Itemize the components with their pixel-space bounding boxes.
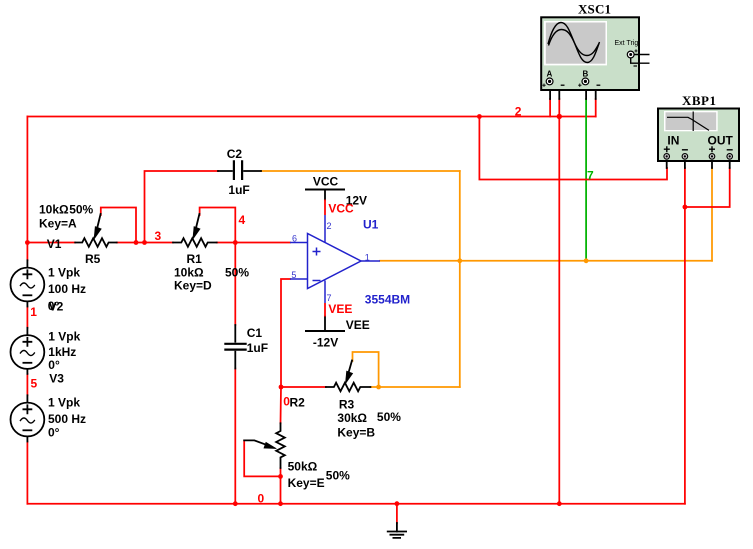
svg-text:1uF: 1uF [247, 341, 268, 355]
INSTRUMENT XBP1 [658, 93, 739, 161]
svg-text:6: 6 [292, 234, 297, 244]
ground [396, 523, 398, 532]
resistor R3 [326, 383, 371, 392]
XBP1 plus minus marks [664, 146, 670, 152]
svg-text:0°: 0° [48, 358, 60, 372]
svg-text:Key=A: Key=A [39, 217, 77, 231]
op-amp U1 [290, 215, 380, 303]
svg-text:5: 5 [291, 270, 296, 280]
wire opamp pin5 net [281, 279, 326, 387]
svg-text:30kΩ: 30kΩ [337, 411, 367, 425]
oscilloscope trace A [548, 23, 600, 63]
svg-text:VCC: VCC [328, 202, 354, 216]
scope A minus stub black [553, 82, 559, 99]
oscilloscope XSC1 body [541, 17, 639, 90]
scope B plus stub black [585, 85, 587, 99]
capacitor C2 [218, 170, 261, 172]
svg-text:3: 3 [155, 229, 162, 243]
svg-text:4: 4 [239, 213, 246, 227]
wire XBP1 INminus to rail [684, 168, 686, 504]
resistor R1 wiper arrow [196, 214, 199, 228]
svg-text:U1: U1 [363, 218, 379, 232]
svg-text:1uF: 1uF [228, 183, 249, 197]
node XBP1 INminus junction [683, 205, 688, 210]
svg-text:OUT: OUT [708, 134, 734, 148]
svg-text:R3: R3 [339, 398, 355, 412]
svg-text:1 Vpk: 1 Vpk [48, 266, 80, 280]
wire C1 bottom to rail [234, 369, 236, 504]
wire green scope B to orange net [585, 99, 587, 261]
svg-text:50%: 50% [326, 468, 350, 482]
bode plotter cursor [692, 112, 694, 132]
svg-text:1: 1 [30, 305, 37, 319]
wire R2 wiper loop [244, 440, 280, 476]
red pin wire VCC [324, 200, 326, 216]
XBP1 terminal stubs black [667, 159, 730, 168]
terminal A [546, 78, 553, 85]
svg-text:-12V: -12V [313, 335, 338, 349]
VEE power symbol [306, 330, 344, 332]
svg-text:Key=D: Key=D [174, 279, 212, 293]
resistor R2 wiper arrow [244, 440, 266, 445]
svg-text:500 Hz: 500 Hz [48, 412, 86, 426]
wire opamp output orange [380, 260, 712, 262]
svg-text:50%: 50% [225, 266, 249, 280]
source V3 [26, 395, 28, 402]
red pin wire VEE [324, 303, 326, 317]
svg-text:50%: 50% [377, 410, 401, 424]
XBP1 terminals [664, 154, 670, 160]
svg-text:1 Vpk: 1 Vpk [48, 329, 80, 343]
wire XBP1 OUTminus [685, 168, 730, 207]
svg-text:0: 0 [258, 492, 265, 506]
node orange green junction [584, 258, 589, 263]
wire scope B minus down [595, 99, 597, 117]
ext trig terminal [627, 51, 634, 58]
svg-text:100 Hz: 100 Hz [48, 282, 86, 296]
node R2 top junction [279, 385, 284, 390]
wire node3 to C2 [145, 171, 219, 243]
svg-text:Ext Trig: Ext Trig [615, 40, 639, 47]
svg-text:C1: C1 [247, 326, 263, 340]
node scope A minus junction [557, 114, 562, 119]
svg-text:1 Vpk: 1 Vpk [48, 396, 80, 410]
wire top horizontal node2 [27, 116, 595, 118]
node rail ground junction [395, 501, 400, 506]
svg-text:0°: 0° [48, 426, 60, 440]
scope B minus stub black [589, 82, 596, 99]
bode plotter screen [664, 111, 718, 131]
svg-text:7: 7 [587, 169, 594, 183]
node R3 wiper junction [376, 385, 381, 390]
svg-text:10kΩ: 10kΩ [174, 266, 204, 280]
source V1 [26, 260, 28, 267]
node rail C1 junction [233, 501, 238, 506]
wire main input line segments [27, 242, 290, 244]
node 4 junction [233, 240, 238, 245]
node rail scope junction [557, 501, 562, 506]
wire R3 right orange [370, 386, 459, 388]
svg-text:R1: R1 [187, 252, 203, 266]
wire node4 down to C1 [234, 243, 236, 326]
wire V source chain [26, 243, 28, 504]
wire left vertical [26, 117, 28, 243]
oscilloscope screen [544, 21, 607, 65]
svg-text:Key=E: Key=E [288, 476, 325, 490]
node orange C2 junction [457, 258, 462, 263]
svg-text:V1: V1 [47, 237, 62, 251]
svg-text:VCC: VCC [313, 175, 339, 189]
wire C2 right orange [261, 170, 460, 172]
svg-text:R5: R5 [85, 252, 101, 266]
resistor R3 wiper arrow [349, 361, 352, 373]
svg-text:VEE: VEE [346, 318, 370, 332]
svg-text:50kΩ: 50kΩ [288, 460, 318, 474]
svg-text:3554BM: 3554BM [365, 293, 410, 307]
resistor R5 wiper arrow [97, 214, 100, 228]
wire R3 wiper tie orange [353, 352, 379, 387]
INSTRUMENT XSC1 [541, 2, 649, 91]
svg-text:10kΩ: 10kΩ [39, 203, 69, 217]
svg-text:V2: V2 [49, 299, 64, 313]
wire R2 bottom to rail [280, 468, 282, 504]
svg-text:Key=B: Key=B [337, 425, 375, 439]
svg-text:IN: IN [667, 134, 679, 148]
node 3 junction [142, 240, 147, 245]
wire R2 top [280, 387, 283, 423]
wire R1 wiper tie [200, 208, 236, 243]
svg-text:XBP1: XBP1 [682, 93, 716, 108]
wire R5 wiper tie [101, 208, 136, 243]
source V2 [26, 328, 28, 335]
svg-text:R2: R2 [290, 396, 306, 410]
resistor R2 [276, 423, 285, 468]
terminal A plus minus [542, 84, 545, 87]
node rail R2 junction [278, 501, 283, 506]
svg-text:1: 1 [365, 253, 370, 263]
node V1 top junction [25, 240, 30, 245]
wire scope A minus down to rail [558, 99, 560, 504]
wire orange vertical x460 [459, 171, 461, 387]
bode plotter XBP1 body [658, 109, 739, 162]
resistor R5 [75, 238, 117, 247]
node 2 junction [477, 114, 482, 119]
svg-text:A: A [547, 70, 553, 79]
capacitor C1 [234, 325, 236, 369]
terminal B [582, 78, 589, 85]
resistor R1 [173, 238, 217, 247]
wire bottom rail [27, 503, 685, 505]
svg-text:B: B [583, 70, 589, 79]
svg-text:2: 2 [515, 105, 522, 119]
svg-text:5: 5 [31, 377, 38, 391]
svg-text:VEE: VEE [328, 302, 352, 316]
wire node2 to XBP1 INplus [479, 117, 667, 180]
wire ground stub [396, 504, 398, 523]
node R5 right junction [134, 240, 139, 245]
svg-text:C2: C2 [227, 147, 243, 161]
wire XBP1 OUTplus orange [711, 168, 713, 261]
VCC power symbol [306, 189, 344, 191]
svg-text:V3: V3 [49, 372, 64, 386]
scope A plus stub black [549, 85, 551, 99]
svg-text:XSC1: XSC1 [578, 2, 611, 17]
svg-text:2: 2 [327, 221, 332, 231]
oscilloscope trace B [549, 30, 600, 56]
wire scope A plus down [549, 99, 551, 117]
svg-text:50%: 50% [69, 203, 93, 217]
terminal B plus minus [578, 84, 581, 87]
node R2 wiper junction [278, 474, 283, 479]
bode plotter trace [667, 117, 709, 130]
